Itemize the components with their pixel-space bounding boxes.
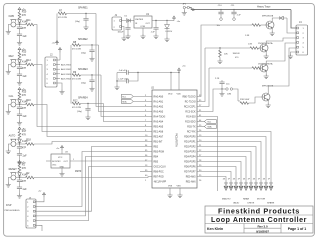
title block frame: [205, 206, 313, 233]
net flag SDA (U2 left): [121, 99, 152, 103]
net flag SDA (U2 right): [197, 125, 216, 129]
wire J4 pin6 ground: [288, 52, 296, 59]
svg-text:47K: 47K: [22, 54, 27, 57]
svg-text:R17: R17: [22, 130, 27, 133]
resistor R16 470: [20, 99, 35, 106]
ground (U2 VSS a): [167, 193, 172, 198]
connector J3 ICSP: [26, 197, 39, 228]
svg-text:.1uF: .1uF: [22, 188, 27, 191]
svg-text:47K: 47K: [22, 134, 27, 137]
resistor R11 470: [20, 19, 35, 26]
switch S5 RESET pushbutton: [8, 168, 19, 183]
diode D3 (Q1): [272, 16, 287, 22]
wire U2 pin to port 6: [197, 157, 246, 182]
port flag 1: [223, 179, 228, 191]
svg-text:.1uF: .1uF: [22, 75, 27, 78]
resistor R2 470: [20, 172, 35, 179]
port flag 6: [248, 179, 253, 191]
svg-text:RE1-AN6: RE1-AN6: [154, 130, 164, 133]
svg-text:RESET: RESET: [9, 168, 18, 171]
ground (SPARE1): [83, 20, 88, 30]
node FWD junction: [19, 24, 20, 25]
ground (Q3 emitter): [264, 71, 269, 79]
transistor Q3 MPS2907A: [209, 63, 273, 80]
wire AUTO to U2: [34, 142, 152, 145]
ground (REV button): [6, 70, 11, 75]
capacitor 47pF (CAL): [17, 105, 27, 111]
resistor R7 470 1/2W: [58, 9, 96, 19]
port flag 7: [253, 179, 258, 191]
port flag 3: [233, 179, 238, 191]
capacitor C12 10uF: [219, 80, 230, 90]
+5v supply (AUTO pullup): [18, 127, 26, 132]
svg-text:SPARE2: SPARE2: [78, 38, 88, 41]
capacitor 47pF (RESET): [17, 178, 27, 184]
voltage regulator U1 LM7805: [134, 13, 163, 28]
svg-text:RB0-T1OSO: RB0-T1OSO: [182, 96, 195, 98]
svg-text:1: 1: [73, 159, 74, 161]
svg-text:VSS: VSS: [177, 185, 182, 187]
wire Q1 to J4 pin2: [287, 18, 296, 33]
capacitor 47pF (FWD): [17, 25, 27, 31]
svg-text:RB1-INT: RB1-INT: [154, 141, 164, 143]
oscillator U3 4MHZ: [46, 152, 82, 173]
jumper JP1: [183, 3, 190, 8]
ground (FWD button): [6, 30, 11, 35]
+5v supply (CAL pullup): [18, 88, 26, 93]
svg-text:470 1/2W: 470 1/2W: [72, 107, 81, 109]
svg-text:LED5V: LED5V: [166, 31, 173, 33]
svg-text:47K: 47K: [22, 94, 27, 97]
wire U2 RC3 to Q4: [197, 89, 222, 112]
svg-text:10M: 10M: [227, 94, 231, 96]
capacitor .1uF (FWD): [17, 29, 27, 38]
svg-text:1N MPS2907A: 1N MPS2907A: [258, 42, 273, 45]
svg-text:RD4-PSP4: RD4-PSP4: [184, 156, 196, 158]
+5v supply (ICSP pin1): [38, 191, 45, 202]
svg-text:47K: 47K: [22, 167, 27, 170]
node CAL junction: [19, 104, 20, 105]
port flag 2: [228, 179, 233, 191]
node SPARE4 junction: [87, 103, 88, 104]
capacitor 50pF (SPARE1): [75, 14, 89, 24]
svg-text:R13: R13: [22, 51, 27, 54]
svg-text:VALID: VALID: [233, 202, 240, 205]
wire U2 RC1 to Q2: [197, 48, 205, 102]
transistor Q4 MPS2907A: [262, 85, 274, 102]
svg-text:SPARE4: SPARE4: [78, 96, 88, 99]
connector J2 AUX: [45, 54, 60, 88]
svg-text:(50p): (50p): [81, 53, 86, 55]
svg-text:Rev 3.0: Rev 3.0: [257, 225, 268, 229]
resistor R10 47K: [18, 11, 27, 20]
ground (J1 pin2): [121, 36, 126, 41]
ground (J2 pin6): [59, 83, 64, 94]
svg-text:(50p): (50p): [77, 111, 82, 113]
+5v supply (regulator output): [163, 16, 181, 23]
transistor Q2 MPS2907A: [258, 42, 273, 52]
resistor R21 (Q2 base): [205, 44, 260, 59]
wire U2 pin to port 2: [197, 137, 266, 182]
ground (U1 COM): [140, 28, 145, 39]
port flag 4: [238, 179, 243, 191]
switch S3 CAL pushbutton: [8, 95, 19, 110]
ground (U2 VSS b): [177, 193, 182, 198]
resistor R14 470: [20, 59, 35, 66]
svg-text:PIC16F877A: PIC16F877A: [175, 133, 178, 147]
svg-text:47P: 47P: [22, 147, 27, 150]
wire U2 pin to port 1: [197, 132, 271, 182]
svg-text:FWD: FWD: [9, 15, 15, 18]
wire U2 VSS leads: [170, 188, 180, 193]
svg-text:RC-T1OSI: RC-T1OSI: [185, 101, 196, 103]
svg-text:RA1-AN1: RA1-AN1: [154, 100, 164, 103]
svg-text:DRIVE: DRIVE: [248, 203, 255, 205]
port flag 10: [268, 179, 273, 191]
svg-text:SDA: SDA: [122, 100, 127, 103]
wire ICSP pin3 to U2: [39, 147, 153, 212]
svg-text:RD3-PSP3: RD3-PSP3: [184, 151, 196, 153]
svg-text:VSS: VSS: [168, 185, 173, 187]
wire C12 feed: [221, 79, 223, 81]
diode 1N4148 (CAL): [18, 100, 28, 105]
resistor R18 470: [20, 139, 35, 146]
svg-text:RC5-SDO: RC5-SDO: [185, 121, 196, 123]
node SPARE2 junction: [91, 44, 92, 45]
diode 1N4148 (RESET): [18, 173, 28, 178]
resistor R17 47K: [18, 130, 27, 139]
svg-text:RA4-T0CKI: RA4-T0CKI: [154, 115, 166, 118]
wire U2 pin to port 4: [197, 147, 256, 182]
svg-text:100uF: 100uF: [118, 32, 125, 34]
svg-text:RE1-AN6: RE1-AN6: [186, 180, 196, 183]
wire ICSP pin6: [39, 225, 43, 231]
svg-text:MPS2907A: MPS2907A: [262, 15, 274, 18]
svg-text:RB4: RB4: [154, 156, 159, 158]
svg-text:R10: R10: [22, 11, 27, 14]
svg-text:Heavy Trace: Heavy Trace: [257, 6, 271, 9]
wire REV to U2: [34, 65, 152, 132]
wire Q2 to J4 pin3: [266, 38, 296, 45]
wire U2 pin to port 9: [197, 172, 231, 182]
svg-text:Finestkind Products: Finestkind Products: [218, 206, 300, 215]
connector J1 POWER 12VDC: [112, 14, 126, 36]
+12 arrow: [192, 8, 196, 11]
ground (SPARE2): [89, 52, 94, 62]
ground (Q1 emitter): [270, 28, 275, 36]
svg-text:R18 1/4W: R18 1/4W: [240, 99, 249, 101]
wire SPARE2 to U2: [99, 45, 153, 112]
wire U2 RB0 to Q1: [197, 25, 250, 97]
diode 1N4148 (FWD): [18, 20, 28, 25]
svg-text:47K: 47K: [22, 14, 27, 17]
svg-text:VCC: VCC: [58, 157, 63, 159]
resistor R12 470 1/2W: [72, 99, 104, 109]
LED D2 power indicator: [164, 20, 172, 42]
capacitor .1uF (CAL): [17, 109, 27, 118]
svg-text:RC2-CCP1: RC2-CCP1: [184, 106, 196, 108]
svg-text:RC3-SCK: RC3-SCK: [185, 111, 196, 113]
svg-text:RA2-AN2: RA2-AN2: [154, 105, 164, 108]
+5v supply (REV pullup): [18, 48, 26, 53]
capacitor C5 .1uF x13 (top): [117, 70, 139, 75]
wire U2 pin to port 5: [197, 152, 251, 182]
svg-text:MOTOR: MOTOR: [257, 198, 266, 200]
node SPARE1 junction: [85, 13, 86, 14]
ground (Q4 emitter): [266, 100, 271, 108]
svg-text:RD2-PSP2: RD2-PSP2: [184, 146, 196, 148]
wire heavy +12 rail: [190, 8, 292, 10]
svg-text:AUTO: AUTO: [9, 135, 16, 138]
capacitor 50pF (SPARE3): [81, 75, 95, 85]
svg-text:COM: COM: [140, 26, 145, 28]
ground (C12): [219, 89, 231, 96]
wire U2 pin to port 8: [197, 167, 236, 182]
svg-text:47P: 47P: [22, 180, 27, 183]
ground (Q2 emitter): [264, 51, 269, 59]
resistor R18 (Q4 base): [238, 99, 249, 104]
svg-text:PROG-DEBUG: PROG-DEBUG: [5, 210, 20, 212]
node regulator input: [127, 20, 129, 22]
ground (REV filter): [17, 76, 22, 86]
wire U2 VDD leads: [138, 73, 179, 91]
resistor R13 47K: [18, 51, 27, 60]
wire Q3 to J4 pin4: [266, 43, 296, 65]
node AUTO junction: [19, 143, 20, 144]
port flag 8: [258, 179, 263, 191]
port flag 5: [243, 179, 248, 191]
svg-text:VDD: VDD: [177, 93, 182, 95]
diode 1N4148 (AUTO): [18, 139, 28, 144]
svg-text:R15: R15: [22, 91, 27, 94]
svg-text:OSC1-CLKI: OSC1-CLKI: [154, 166, 166, 168]
svg-text:REV: REV: [9, 55, 14, 58]
svg-text:470 1/2W: 470 1/2W: [58, 17, 67, 19]
wire U2 pin to port 3: [197, 142, 261, 182]
resistor R9 470 1/2W: [72, 71, 101, 81]
ground (AUTO filter): [17, 155, 22, 165]
+5v supply (oscillator): [56, 146, 63, 155]
svg-text:RD7-PSP7: RD7-PSP7: [184, 171, 196, 173]
svg-text:R18: R18: [26, 139, 31, 142]
svg-text:1.8K: 1.8K: [245, 35, 250, 37]
switch S2 REV pushbutton: [8, 55, 19, 70]
svg-text:9/19/2007: 9/19/2007: [256, 229, 269, 233]
capacitor 47pF (AUTO): [17, 144, 27, 150]
svg-text:RA0-AN0: RA0-AN0: [154, 95, 164, 98]
IC U2 pin labels: [145, 93, 202, 187]
connector J4 MOTOR OUT: [296, 21, 308, 55]
ground (bypass caps): [114, 73, 119, 90]
wire ICSP pin5 MCLR: [39, 167, 153, 221]
wire U2 RC2 to Q3: [197, 68, 209, 107]
svg-text:RB7-PGD: RB7-PGD: [154, 176, 165, 178]
wire +12 rail to J4 pin1: [291, 10, 296, 28]
IC U2 PIC16F877A body: [151, 88, 197, 188]
svg-text:470 1/2W: 470 1/2W: [72, 49, 81, 51]
capacitor .1uF (AUTO): [17, 148, 27, 157]
wire RESET to U2 MCLR: [34, 177, 152, 178]
svg-text:RD0-PSP0: RD0-PSP0: [184, 136, 196, 138]
ground (SPARE3): [89, 82, 94, 92]
wire spare2-4 feed: [70, 45, 72, 104]
svg-text:R16: R16: [26, 99, 31, 102]
net flag SCL (U2 left): [121, 94, 152, 98]
svg-text:RD5-PSP5: RD5-PSP5: [184, 161, 196, 163]
ground (FWD filter): [17, 36, 22, 46]
svg-text:M/AUTO: M/AUTO: [222, 197, 231, 200]
svg-text:(50p): (50p): [75, 21, 80, 23]
node REV junction: [19, 64, 20, 65]
svg-text:1N4148: 1N4148: [233, 53, 241, 55]
capacitor 50pF (SPARE4): [77, 104, 91, 114]
svg-text:AUX.SW2: AUX.SW2: [61, 68, 72, 71]
svg-text:RA3-AN3: RA3-AN3: [154, 110, 164, 113]
+5v supply (RESET pullup): [18, 161, 26, 166]
capacitor C11 .1uF: [231, 5, 242, 20]
svg-text:SDA: SDA: [207, 125, 212, 128]
wire CAL to U2: [34, 105, 152, 137]
svg-text:+5v: +5v: [56, 148, 59, 150]
svg-text:Page 1 of 1: Page 1 of 1: [288, 227, 307, 231]
svg-text:RD1-PSP1: RD1-PSP1: [184, 141, 196, 143]
svg-text:SPARE3: SPARE3: [78, 68, 88, 71]
ground (RESET button): [6, 183, 11, 188]
svg-text:10K: 10K: [224, 54, 228, 56]
svg-text:OSC: OSC: [52, 165, 57, 167]
ground (CAL button): [6, 110, 11, 115]
svg-text:RB3-PGM: RB3-PGM: [154, 151, 165, 153]
capacitor C10 10uF: [217, 5, 224, 27]
svg-text:SPARE1: SPARE1: [78, 6, 88, 9]
svg-text:ICSP: ICSP: [6, 205, 12, 207]
diode D1 1N4001: [125, 16, 135, 23]
wire U2 pin to port 10: [197, 177, 226, 182]
svg-text:47P: 47P: [22, 67, 27, 70]
svg-text:RE0-AN5: RE0-AN5: [154, 125, 164, 128]
svg-text:.1uF: .1uF: [151, 32, 156, 34]
capacitor 50pF (SPARE2): [81, 45, 95, 55]
wire ICSP pin2 PGD: [39, 152, 153, 207]
svg-text:.1uF: .1uF: [22, 154, 27, 157]
ground (SPARE4): [85, 110, 90, 120]
svg-text:RA5-AN4: RA5-AN4: [154, 120, 164, 123]
svg-text:.1uF x13: .1uF x13: [119, 70, 128, 72]
+5v supply (SPARE pullups): [52, 14, 59, 46]
wire Q4 to J4 pin5: [268, 48, 296, 94]
svg-text:-MCLR-VPP: -MCLR-VPP: [154, 181, 167, 183]
svg-text:(.1uF x13): (.1uF x13): [119, 79, 129, 81]
port flag 9: [263, 179, 268, 191]
diode 1N4148 (REV): [18, 60, 28, 65]
svg-text:RC6-TX: RC6-TX: [187, 126, 196, 128]
node SPARE3 junction: [91, 74, 92, 75]
svg-text:VDD: VDD: [168, 93, 173, 95]
svg-text:RE2-AN7: RE2-AN7: [154, 135, 164, 138]
jumper JP2: [222, 88, 238, 101]
switch S4 AUTO pushbutton: [8, 135, 19, 150]
svg-text:AUX.SW1: AUX.SW1: [61, 64, 72, 67]
capacitor 47pF (REV): [17, 65, 27, 71]
svg-text:Loop Antenna Controller: Loop Antenna Controller: [211, 216, 307, 224]
net flag SCL (U2 right): [197, 120, 216, 124]
svg-text:RB5: RB5: [154, 161, 159, 163]
wire SPARE3 to U2: [101, 75, 152, 117]
svg-text:AUX.SW3: AUX.SW3: [61, 73, 72, 76]
svg-text:2.2K: 2.2K: [215, 78, 220, 80]
resistor R15 47K: [18, 91, 27, 100]
svg-text:RC7-RX: RC7-RX: [187, 131, 196, 133]
svg-text:RB2: RB2: [154, 146, 159, 148]
svg-text:AUX.SW4: AUX.SW4: [61, 77, 72, 80]
+5v supply (U2 VDD): [178, 66, 187, 73]
transistor Q1 MPS2907A: [245, 15, 274, 38]
svg-text:(50p): (50p): [81, 83, 86, 85]
ground (RESET filter): [17, 189, 22, 199]
capacitor C2 .1uF: [151, 20, 159, 39]
svg-text:47P: 47P: [22, 27, 27, 30]
resistor R22 10K: [217, 47, 228, 63]
svg-text:RB6-PGC: RB6-PGC: [154, 171, 165, 173]
ground (JP1): [182, 9, 187, 15]
svg-text:+5v: +5v: [38, 191, 41, 193]
ground (CAL filter): [17, 116, 22, 126]
wire U2 RC4 down: [197, 117, 218, 192]
wire U2 pin to port 7: [197, 162, 241, 182]
svg-text:.1uF: .1uF: [22, 115, 27, 118]
wire U2 OSC2 stub: [140, 171, 152, 173]
svg-text:Ken Klein: Ken Klein: [207, 227, 223, 231]
+5v supply (J2 pin1): [59, 48, 62, 61]
svg-text:470 1/2W: 470 1/2W: [72, 79, 81, 81]
svg-text:47P: 47P: [22, 107, 27, 110]
ground (AUTO button): [6, 149, 11, 154]
ground (oscillator): [59, 168, 64, 176]
capacitor .1uF (RESET): [17, 182, 27, 191]
wire SPARE4 to U2: [104, 104, 153, 122]
+5v supply (FWD pullup): [18, 8, 26, 13]
svg-text:R11: R11: [26, 19, 31, 22]
wire FWD to U2: [34, 25, 152, 127]
capacitor .1uF (REV): [17, 69, 27, 78]
capacitor C6 .1uF x13 (bottom): [117, 73, 138, 84]
capacitor C1 100uF: [118, 20, 131, 39]
svg-text:R14: R14: [26, 59, 31, 62]
svg-text:CAL: CAL: [9, 95, 14, 98]
svg-text:NEAR: NEAR: [243, 197, 249, 200]
svg-text:RE0-AN5: RE0-AN5: [186, 175, 196, 178]
wire ICSP pin4 PGC: [39, 157, 153, 216]
svg-text:1.8K: 1.8K: [248, 44, 253, 46]
wire SPARE1 to U2: [96, 14, 152, 107]
svg-text:RD6-PSP6: RD6-PSP6: [184, 166, 196, 168]
wire oscillator OUT to U2 OSC1: [70, 160, 152, 162]
resistor R1 47K: [18, 164, 26, 173]
svg-text:.1uF: .1uF: [237, 14, 242, 16]
svg-text:RC4-SDI: RC4-SDI: [186, 116, 196, 118]
svg-text:NC/STBY: NC/STBY: [52, 161, 61, 163]
svg-text:LM7805: LM7805: [135, 19, 144, 21]
svg-text:SPARE: SPARE: [267, 202, 275, 205]
svg-text:4MHZ: 4MHZ: [75, 171, 82, 173]
svg-text:.1uF: .1uF: [22, 35, 27, 38]
switch S1 FWD pushbutton: [8, 15, 19, 30]
node RESET junction: [19, 177, 20, 178]
resistor R8 470 1/2W: [72, 41, 99, 51]
